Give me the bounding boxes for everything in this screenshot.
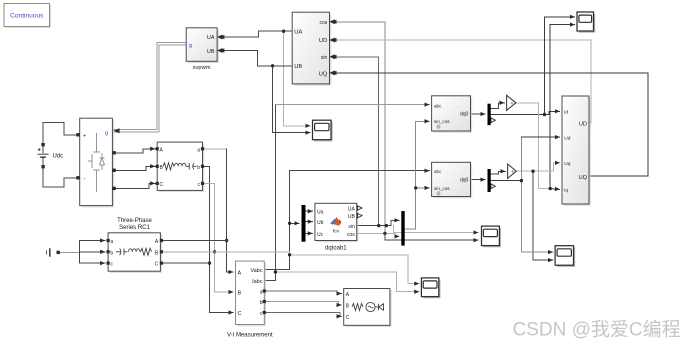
svg-text:dq0: dq0 [460,178,469,184]
three-phase series RC1 block (lower) [107,233,164,273]
wire Udc- to bridge - [43,168,76,187]
svg-text:UB: UB [348,214,356,220]
wire V-I b to load B [264,302,341,306]
svg-text:Vabc: Vabc [250,268,262,274]
svg-text:a: a [260,289,263,295]
ground symbol [47,248,60,256]
svg-text:Continuous: Continuous [10,12,44,19]
wire demux2 mid to Ud input and scope3 in1 [491,180,521,182]
scope Scope2 (UA UB) [313,120,333,141]
wire lower RC1 C output to phase c [161,262,209,264]
wire phase b: RC out b down to V-I C [203,166,234,312]
svg-text:V-I Measurement: V-I Measurement [227,333,273,339]
svg-text:b: b [197,165,200,171]
svpwm block [186,28,222,63]
svg-text:C: C [160,182,164,188]
MATLAB logo icon [330,217,341,226]
wire sin branch to scope4 in1 [393,226,478,233]
svg-text:UQ: UQ [579,175,588,181]
svg-text:UB: UB [294,64,302,70]
wire UA: inverse-park UA to svpwm UA, tap to scope2 in1 [220,31,293,37]
wire UD feedback: controller UD output to inverse-park UD input [332,40,591,123]
wire V-I c to load C [264,313,341,317]
svg-text:B: B [238,291,242,297]
diode mark inside load [375,304,383,310]
demux for Vabc (to fcn inputs) [302,205,306,242]
svg-text:Ua: Ua [317,210,324,216]
svg-text:Uq: Uq [564,161,570,167]
wire lower RC1 B output to phase b [161,251,214,253]
svg-text:C: C [155,262,159,268]
svg-text:-K-: -K- [510,169,516,174]
junction dot Iabc branch [274,270,277,273]
wire bridge C to RC block C [114,183,156,188]
svg-text:abc: abc [434,104,442,109]
wire dq0 block1 output to demux1 [471,113,486,115]
svg-text:UD: UD [319,38,327,44]
demux1 [488,104,496,126]
svg-text:fcn: fcn [333,228,340,233]
svg-text:dqtoab1: dqtoab1 [325,245,347,251]
wire demux1 top to gain1 [491,103,505,109]
svg-text:CSDN @我爱C编程: CSDN @我爱C编程 [513,319,681,341]
svg-text:abc: abc [434,169,442,174]
abc to dq0 transform block2 [432,162,473,198]
inductor L inside RC1 [129,249,140,252]
three-phase series RLC branch block (upper RC) [156,142,205,192]
svg-text:C: C [238,311,242,317]
svg-text:UA: UA [207,35,215,41]
wire id: demux1 mid to controller id, tap up to scope1 in1 [491,111,560,114]
MATLAB function block dqtoab1 [315,203,362,242]
inductor L inside upper RC [175,163,186,166]
inverse park block (UD,UQ,sin,cos to UA,UB) [292,12,335,86]
svg-text:Series RC1: Series RC1 [119,225,150,231]
wire UQ feedback: controller UQ output to inverse-park UQ input [332,73,648,176]
abc to dq0 transform block1 [432,96,473,133]
wire gate g (vector, double line) svpwm to bridge [114,43,187,132]
svg-text:b: b [260,300,263,306]
svg-text:UQ: UQ [319,71,328,77]
svg-text:UD: UD [579,122,587,128]
svg-text:sin_cos: sin_cos [434,119,450,124]
svg-text:Uc: Uc [317,232,324,238]
wire cos branch to scope4 in2 [385,233,478,240]
AC source circle inside load [366,302,375,311]
wire Vabc: V-I Vabc output up to abc of dq0 block2, branch to demux of fcn [264,171,429,270]
svg-text:-: - [84,177,86,183]
resistor R inside RC1 [141,248,152,255]
DC voltage source Udc [38,143,49,168]
svg-text:UA: UA [294,29,302,35]
V-I measurement block [236,261,267,326]
capacitor C inside RC1 [116,249,128,256]
wire Udc+ to bridge + [43,122,76,143]
svg-text:UB: UB [207,49,215,55]
wire lower RC1 A output to phase a [161,240,226,242]
wire sin: fcn sin column to inverse-park sin input [332,57,379,226]
wire UB: inverse-park UB to svpwm UB, tap to scope2 in2 [220,51,293,66]
svg-text:dq0: dq0 [460,112,469,118]
svg-text:a: a [197,147,200,153]
resistor inside load [352,304,363,311]
svg-text:A: A [238,271,242,277]
wire Vb tap to scope5 in1 [215,252,420,284]
gain2 triangle [508,164,517,178]
scope Scope3 (Ud Uq) [555,246,575,267]
svg-text:cos: cos [347,232,355,238]
svg-text:a: a [110,239,113,245]
wire demux to fcn Ua [306,210,313,212]
controller block (id,Ud,Uq,iq to UD,UQ) [562,96,591,206]
svg-text:g: g [105,130,108,136]
svg-text:Ub: Ub [317,220,324,226]
unconnected output nubs UA UB [358,206,363,210]
mux for sin_cos [401,211,404,246]
capacitor C inside upper RC [186,163,197,170]
svg-text:C: C [346,315,350,321]
wire fcn cos output to cos column and sincos mux in2 [357,233,400,236]
svg-text:Ud: Ud [564,135,570,141]
wire phase a: RC out a down to V-I A [203,148,227,150]
wire demux2 top to gain2 [491,171,505,174]
wire V-I a to load A [264,291,341,294]
wire bridge A to RC block A [114,149,156,153]
svg-text:g: g [189,43,192,49]
svg-text:id: id [564,110,568,116]
svg-text:cos: cos [320,20,328,26]
wire demux to fcn Ub [306,221,313,223]
svg-text:b: b [110,250,113,256]
svg-text:svpwm: svpwm [193,65,211,71]
scope Scope5 (Vabc Iabc) [421,278,440,298]
wire fcn sin output to sin column and sincos mux in1 [357,220,400,225]
resistor R inside upper RC [163,163,174,170]
wire demux to fcn Uc [306,232,313,234]
wire gain2 output to Uq input, junction to scope3 in2 [516,163,559,171]
wire gain1 output to iq node [516,103,548,189]
three-phase load block (R + AC source) [344,289,392,328]
svg-text:sin: sin [348,224,355,230]
universal bridge (IGBT inverter) [76,118,119,207]
wire Iabc: V-I Iabc output up to abc of dq0 block1, branch to scope5 in2 [264,105,275,281]
svg-text:Three-Phase: Three-Phase [117,218,152,224]
svg-text:Iabc: Iabc [252,279,263,285]
junction dot UA tap [282,30,285,33]
scope Scope1 (top right) [577,12,595,33]
gain1 triangle [507,95,516,110]
wire dq0 block2 output to demux2 [471,179,486,181]
powergui block Continuous [4,4,51,29]
wire phase c: RC out c down to V-I B [203,183,234,292]
scope Scope4 (sin cos) [482,226,502,247]
svg-text:-K-: -K- [510,101,516,106]
svg-text:sin: sin [321,55,328,61]
wire iq into controller, tap up to scope1 in2 [550,188,560,191]
svg-text:sin_cos: sin_cos [434,186,450,191]
junction dot UB tap [271,64,274,67]
demux2 [488,169,496,192]
wire bridge B to RC block B [114,166,156,170]
wire ground to lower RC1 inputs [61,251,80,253]
wire sin_cos mux output to sin_cos inputs of both dq0 blocks [405,188,430,229]
wire cos: fcn cos column to inverse-park cos input [332,22,385,234]
svg-text:Udc: Udc [53,153,64,159]
svg-text:iq: iq [564,188,568,194]
svg-text:UA: UA [348,206,356,212]
junction dot Vabc-demux [288,222,291,225]
svg-text:+: + [83,134,86,140]
